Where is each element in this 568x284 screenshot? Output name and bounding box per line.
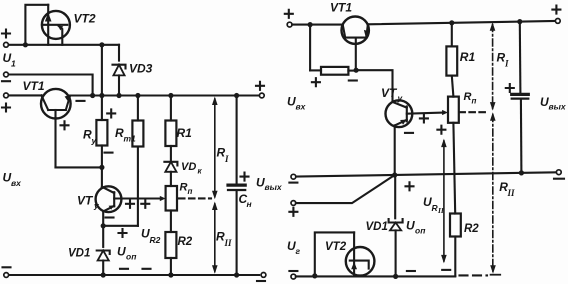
diode VD1 (right, zener): [389, 175, 403, 276]
terminal + input (third, VT1 base): [2, 93, 10, 112]
plus mark capacitor (right): [506, 84, 514, 92]
terminal - mid right: [554, 170, 564, 179]
svg-text:I: I: [504, 59, 509, 69]
wire VD3 top lead: [118, 45, 120, 61]
wire aux input diagonal to mid rail: [296, 175, 395, 203]
node rail x101.9: [99, 93, 104, 98]
transistor VT2 (right): [346, 232, 375, 276]
label VD3: [129, 62, 153, 76]
svg-text:вх: вх: [296, 102, 307, 112]
node emitter junction: [101, 223, 106, 228]
svg-text:VD1: VD1: [68, 248, 90, 260]
wire bottom dashed continuation: [460, 274, 488, 276]
diode VDк (zener): [164, 162, 177, 186]
plus mark at VT1 emitter: [61, 121, 69, 129]
wire VT1 base: [9, 94, 42, 96]
node base junction: [354, 68, 359, 73]
plus mark above Ry: [107, 109, 115, 117]
svg-text:к: к: [198, 167, 203, 176]
node mid rail VD1 column: [392, 172, 397, 177]
svg-text:R: R: [464, 91, 472, 103]
resistor R1: [165, 96, 176, 162]
svg-text:R: R: [180, 182, 188, 194]
wire down to series resistor: [309, 25, 311, 71]
wire emitter to Rт1 column: [103, 225, 138, 227]
dashed wiper reference (right): [459, 111, 488, 113]
terminal - mid left: [289, 174, 297, 182]
node rail cap column: [517, 19, 522, 24]
wire input top: [9, 44, 119, 46]
svg-text:R2: R2: [150, 235, 161, 245]
label VT2: [74, 12, 96, 26]
wire input to VT1: [292, 24, 343, 26]
transistor VT1: [41, 89, 71, 168]
label RI (right): [497, 51, 510, 69]
node junction rect-bottom: [23, 42, 28, 47]
label Uоп (right): [406, 219, 426, 236]
svg-text:VT: VT: [381, 86, 398, 100]
svg-text:R2: R2: [178, 236, 193, 248]
label UR2: [141, 227, 161, 246]
label Uг: [287, 239, 301, 256]
svg-text:U: U: [117, 245, 126, 259]
node rail x119: [116, 93, 121, 98]
svg-text:VD: VD: [181, 161, 196, 173]
label Uвых: [256, 176, 283, 193]
svg-text:VT1: VT1: [23, 79, 45, 93]
resistor R2: [165, 232, 176, 275]
transistor VT2: [42, 5, 70, 45]
wire VT2 gate loop: [315, 232, 354, 276]
dimension line RII (right, dash-dot): [490, 112, 500, 274]
node VT2 loop bottom: [312, 273, 317, 278]
node rail x170.9: [168, 93, 173, 98]
resistor R2 (right): [450, 214, 461, 276]
node bottom x236.6: [234, 272, 239, 277]
terminal - bottom right: [257, 273, 266, 282]
wire base node to VTy collector: [356, 70, 392, 102]
terminal +U1 input (top left): [2, 30, 10, 48]
svg-text:II: II: [507, 188, 516, 198]
diode VD3 (zener): [113, 65, 126, 96]
minus mark below Ry: [105, 152, 113, 154]
minus mark right of series resistor: [349, 79, 357, 81]
dimension line RI (upper): [212, 97, 218, 200]
svg-text:1: 1: [11, 59, 16, 69]
capacitor output (right): [512, 22, 529, 173]
node junction wire/VD3 column: [99, 42, 104, 47]
wire mid rail: [296, 172, 557, 176]
terminal + aux input: [289, 201, 297, 216]
label U1: [3, 51, 17, 69]
label Rп (right): [464, 91, 477, 106]
label VTу: [77, 194, 100, 211]
potentiometer Rп: [166, 186, 177, 232]
terminal + output (right circuit top right): [552, 6, 560, 24]
transistor VT1 (right): [342, 17, 371, 71]
terminal + output (top right of left circuit): [256, 82, 264, 98]
terminal - bottom left: [3, 267, 11, 277]
wire input to rail: [101, 45, 103, 96]
label Ry: [83, 128, 98, 146]
label Cн: [239, 192, 252, 209]
plus marks on wiper wire: [126, 200, 149, 208]
wire minus input to rail: [9, 75, 93, 96]
svg-text:п: п: [472, 97, 477, 106]
label RI: [217, 146, 230, 165]
resistor Ry: [96, 96, 107, 168]
potentiometer Rп (right): [448, 97, 459, 214]
label VDк: [181, 161, 203, 176]
node junction emitter/Ry: [99, 165, 104, 170]
node rail x236.6: [234, 93, 239, 98]
svg-text:VT1: VT1: [330, 1, 352, 15]
plus mark URII top: [437, 126, 445, 134]
minus mark at VT1 collector: [77, 100, 85, 102]
label Uвх (left circuit): [3, 171, 23, 189]
svg-text:R1: R1: [177, 126, 193, 140]
minus mark below VTу (right): [405, 132, 413, 134]
resistor R1 (right): [446, 23, 457, 97]
svg-text:п: п: [188, 187, 193, 196]
plus mark Uоп (right): [406, 182, 414, 190]
wire bottom rail: [9, 274, 259, 276]
label VT1: [23, 79, 45, 93]
svg-text:вх: вх: [11, 178, 22, 188]
node bottom x170.9: [168, 272, 173, 277]
svg-text:VT: VT: [77, 194, 94, 208]
label R1: [177, 126, 193, 140]
dimension line URII with arrows: [441, 139, 447, 264]
label Rп: [180, 182, 193, 197]
svg-text:оп: оп: [415, 226, 426, 236]
plus mark under wiper wire: [420, 114, 428, 122]
label RII: [216, 230, 232, 249]
label R1 (right): [460, 50, 476, 64]
minus marks bottom: [120, 268, 151, 270]
plus mark capacitor: [241, 173, 249, 181]
svg-text:VD3: VD3: [129, 62, 153, 76]
label VT1 (right): [330, 1, 352, 15]
label VTу (right): [381, 86, 404, 103]
label R2: [178, 236, 193, 248]
svg-text:R2: R2: [464, 223, 479, 235]
node rail x137.9: [135, 93, 140, 98]
minus marks bottom (right circuit): [407, 270, 415, 272]
label Uвых (right): [540, 95, 567, 112]
svg-text:U: U: [406, 219, 415, 233]
wire top rail right: [368, 21, 556, 24]
svg-text:н: н: [247, 199, 252, 209]
dashed wiper reference line: [179, 197, 211, 199]
node rail x92.6: [90, 93, 95, 98]
label R2 (right): [464, 223, 479, 235]
node rail R1 column: [449, 20, 454, 25]
node base divider junction: [308, 22, 313, 27]
svg-text:VD1: VD1: [366, 221, 388, 233]
label Uвх (right circuit): [287, 95, 307, 112]
capacitor Cн: [228, 96, 245, 276]
label VD1 (right): [366, 221, 388, 233]
svg-text:г: г: [296, 246, 301, 256]
minus mark URII bottom: [442, 269, 450, 271]
svg-text:вых: вых: [265, 182, 283, 192]
dimension line RI (right, dash-dot): [490, 22, 496, 110]
minus mark below VTу: [106, 216, 114, 218]
wire wiper from VTy base with arrow: [114, 196, 165, 201]
node VD1 bottom: [393, 274, 398, 279]
svg-text:VT2: VT2: [325, 241, 347, 253]
svg-text:R1: R1: [460, 50, 476, 64]
resistor Rт1: [132, 96, 143, 226]
wire main collector rail: [70, 94, 259, 96]
dimension line RII (lower): [212, 202, 218, 274]
label VD1: [68, 248, 90, 260]
node bottom x103.2: [101, 272, 106, 277]
label Uоп: [117, 245, 137, 262]
terminal + input (right circuit top left): [285, 10, 293, 27]
wire feedback rectangle to VT2 emitter: [25, 5, 48, 45]
transistor VTу: [96, 167, 122, 225]
svg-text:VT2: VT2: [74, 12, 96, 26]
plus mark Uоп: [119, 229, 127, 237]
resistor base series (horizontal): [310, 67, 356, 75]
label RII (right): [499, 180, 515, 198]
plus mark left of series resistor: [312, 78, 320, 86]
label Rт1: [115, 126, 136, 144]
wire wiper VTy base to Rп with arrow: [407, 110, 448, 115]
svg-text:I: I: [224, 154, 229, 164]
diode VD1 (zener): [97, 226, 110, 275]
label VT2 (right): [325, 241, 347, 253]
svg-text:оп: оп: [126, 252, 137, 262]
svg-text:вых: вых: [549, 102, 567, 112]
transistor VTу (right): [386, 100, 413, 175]
terminal - input (second): [2, 72, 10, 81]
node mid rail cap column: [519, 170, 524, 175]
wire VT1 emitter to Ry bottom: [56, 166, 102, 168]
svg-text:т1: т1: [124, 134, 137, 144]
terminal - bottom left (right circuit): [289, 271, 297, 279]
label URII: [423, 195, 445, 215]
svg-text:II: II: [224, 238, 233, 248]
wire bottom line (right circuit): [296, 275, 456, 277]
